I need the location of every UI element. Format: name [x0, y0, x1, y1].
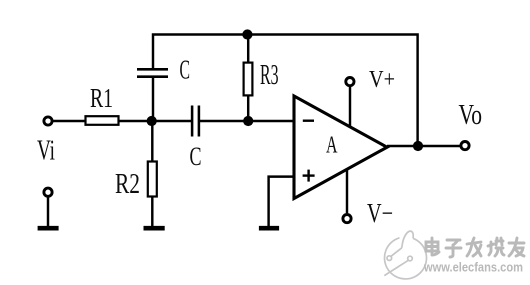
svg-text:Vi: Vi — [37, 136, 55, 167]
svg-text:C: C — [180, 55, 191, 85]
svg-text:C: C — [190, 142, 202, 171]
svg-text:V+: V+ — [369, 67, 395, 93]
svg-text:R2: R2 — [115, 169, 140, 200]
svg-text:A: A — [326, 133, 338, 159]
svg-text:R1: R1 — [90, 83, 113, 113]
svg-text:www.elecfans.com: www.elecfans.com — [423, 260, 523, 275]
svg-text:R3: R3 — [260, 60, 279, 91]
svg-text:V−: V− — [367, 198, 393, 228]
svg-text:Vo: Vo — [459, 100, 483, 131]
